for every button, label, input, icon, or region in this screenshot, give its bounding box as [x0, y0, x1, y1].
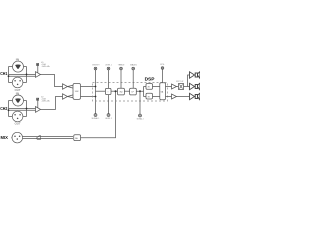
svg-text:EQ: EQ: [120, 92, 123, 94]
wire EQ to filter block: [124, 90, 129, 92]
wire buffer B pair into summing block: [68, 95, 74, 98]
CH2 input gain trim switch: [37, 98, 39, 108]
speaker midrange: [195, 83, 200, 90]
wire ADC to EQ block: [111, 90, 118, 92]
svg-text:MIX: MIX: [1, 135, 9, 140]
VCA level control block: [176, 81, 184, 90]
filter block: [130, 88, 137, 95]
node CH2 junctions: [8, 108, 28, 112]
node CH1 junctions: [8, 74, 28, 78]
control knob TREBLE: [118, 64, 125, 88]
svg-text:LEVEL 1: LEVEL 1: [105, 64, 112, 66]
op-amp woofer power amplifier: [190, 93, 195, 99]
DSP section dashed boundary: [93, 83, 168, 102]
svg-text:XO: XO: [148, 87, 151, 89]
svg-text:VOL: VOL: [160, 64, 165, 66]
wire bus to ADC block: [96, 90, 106, 92]
svg-text:BASS: BASS: [130, 63, 136, 66]
CH1 input gain trim switch: [37, 64, 39, 74]
op-amp CH1 input amplifier: [36, 72, 41, 78]
wire DAC high output to driver amp: [166, 86, 172, 88]
XLR female input connector CH2 IN: [13, 94, 24, 106]
wire MIX balanced pair: [23, 137, 73, 139]
control knob VOLUME: [160, 64, 165, 83]
svg-text:BAL: BAL: [75, 137, 78, 140]
crossover high block: [146, 84, 153, 90]
balanced receiver block MIX: [74, 135, 81, 141]
svg-text:+20dB: +20dB: [41, 64, 46, 66]
svg-text:SIGNAL 1: SIGNAL 1: [92, 117, 100, 120]
svg-text:DSP: DSP: [145, 76, 156, 82]
XLR male thru connector CH2 OUT: [12, 111, 23, 125]
svg-text:SOFT CLIP: SOFT CLIP: [176, 81, 183, 83]
svg-text:SIGNAL 2: SIGNAL 2: [137, 117, 144, 120]
wire summing outputs to input select bus: [81, 87, 96, 97]
wire CH2 balanced pair to amp: [9, 109, 36, 111]
control knob BASS: [130, 63, 136, 88]
control knob SENSITIVITY: [92, 64, 99, 69]
wire filter to crossover split: [136, 87, 146, 97]
node bus junction lower: [95, 96, 97, 98]
wire crossover outputs to DAC: [153, 87, 160, 97]
svg-text:OUT: OUT: [15, 124, 22, 126]
service point SIGNAL 1: [92, 114, 100, 120]
svg-text:I: I: [108, 92, 109, 94]
ADC block: [105, 88, 111, 94]
DAC block: [160, 83, 166, 100]
svg-text:0: 0: [41, 62, 44, 64]
service point LEVEL 2: [105, 95, 112, 120]
node crossover junction: [139, 90, 141, 92]
svg-text:-10dBV/+4dBu: -10dBV/+4dBu: [41, 101, 50, 103]
svg-text:XO: XO: [148, 96, 151, 98]
speaker woofer: [195, 93, 200, 100]
op-amp CH2 input amplifier: [36, 107, 41, 113]
wire CH1 balanced pair to amp: [9, 74, 36, 76]
svg-text:0: 0: [41, 97, 44, 99]
op-amp high driver: [172, 84, 177, 89]
EQ block: [118, 88, 125, 95]
svg-text:-10dBV/+4dBu: -10dBV/+4dBu: [41, 66, 50, 68]
wire DAC low output to driver amp: [166, 96, 172, 98]
service point SIGNAL 2: [137, 91, 144, 120]
svg-text:+20dB: +20dB: [41, 99, 46, 101]
svg-text:LEVEL 2: LEVEL 2: [105, 118, 112, 120]
op-amp tweeter power amplifier: [190, 72, 195, 78]
XLR male thru connector CH1 OUT: [12, 77, 23, 92]
wire driver to VCA: [177, 86, 179, 88]
wire low driver to woofer amp: [177, 96, 190, 98]
svg-text:DA: DA: [161, 90, 164, 93]
XLR female input connector CH1 IN: [13, 60, 24, 72]
CH2 gain value label: [41, 97, 50, 103]
wire input select bus vertical: [95, 70, 97, 114]
svg-text:CH1: CH1: [0, 71, 8, 76]
wire CH1 amp output to summing buffer: [41, 75, 63, 87]
node bus junction upper: [95, 86, 97, 88]
svg-text:OUT: OUT: [15, 90, 22, 92]
wire MIX output to DSP chain: [81, 91, 116, 138]
op-amp low driver: [172, 94, 177, 99]
wire buffer A pair into summing block: [68, 85, 74, 88]
CH1 gain value label: [41, 62, 50, 68]
op-amp summing buffer B (CH2): [63, 94, 68, 99]
wire CH2 amp output to summing buffer: [41, 97, 63, 110]
summing block: [73, 84, 81, 100]
wire CH1 connector bracket: [9, 67, 27, 83]
control knob LEVEL 1: [105, 64, 112, 88]
svg-text:TREBLE: TREBLE: [118, 64, 125, 66]
XLR male connector MIX input: [11, 132, 22, 143]
svg-text:CH2: CH2: [0, 106, 8, 111]
wire VCA to tweeter and mid branch: [184, 75, 190, 87]
svg-text:SUM: SUM: [75, 91, 79, 93]
wire CH2 connector bracket: [9, 101, 27, 117]
crossover low block: [146, 93, 153, 99]
speaker tweeter: [195, 72, 200, 79]
node MIX join junction: [115, 90, 117, 92]
svg-text:LF: LF: [132, 92, 135, 94]
svg-text:SENSITIVITY: SENSITIVITY: [92, 64, 99, 66]
TRS jack plug symbol on MIX line: [37, 136, 41, 140]
op-amp mid power amplifier: [190, 83, 195, 89]
op-amp summing buffer A (CH1): [63, 84, 68, 89]
